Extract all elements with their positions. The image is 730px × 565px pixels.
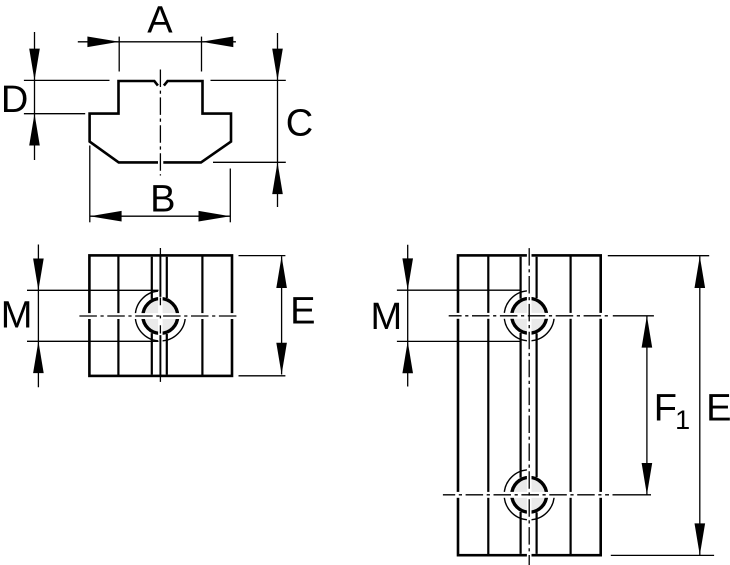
plan2 tapped hole bottom	[512, 477, 547, 512]
plan2 slot line left	[519, 257, 521, 554]
plan1 slot line right	[166, 257, 168, 375]
dim E2 ext bottom	[611, 554, 714, 556]
plan1 line A-left	[117, 255, 119, 376]
svg-text:C: C	[286, 103, 313, 145]
centerline profile vertical	[159, 70, 161, 176]
plan1 outline rect	[89, 255, 232, 376]
dim M2 ext bottom	[397, 340, 521, 342]
plan1 halo horizontal	[85, 313, 237, 319]
dim M2 ext top	[397, 289, 521, 291]
dim M1 line	[37, 245, 39, 388]
plan2 outline rect	[458, 255, 601, 555]
dim A ext right	[201, 37, 203, 72]
plan1 thread outer arc	[135, 291, 185, 341]
profile outline left half	[90, 81, 158, 162]
profile outline right half	[163, 81, 231, 162]
plan1 centerline vertical through hole	[159, 298, 161, 334]
dim M1 ext top	[27, 289, 159, 291]
plan1 centerline vertical stub above	[159, 248, 161, 255]
svg-text:F: F	[654, 388, 677, 430]
dim F1 arrow bottom	[642, 463, 653, 495]
plan2 centerline horizontal top	[449, 315, 609, 317]
svg-text:E: E	[290, 291, 315, 333]
plan2 line A-left	[487, 255, 489, 555]
svg-text:M: M	[370, 296, 402, 338]
dim E2 ext top	[608, 255, 709, 257]
dimension E (right view)	[608, 256, 714, 556]
svg-text:B: B	[150, 179, 175, 221]
dim C line	[277, 33, 279, 207]
dim D ext top	[24, 79, 110, 81]
plan2 centerline vertical	[528, 246, 530, 565]
dim D arrow top	[29, 49, 40, 81]
dim C arrow bottom	[272, 162, 283, 194]
plan1 line A-right	[201, 255, 203, 376]
plan2 tapped hole top	[512, 298, 547, 333]
plan1 centerline horizontal	[79, 315, 239, 317]
dim D arrow bottom	[29, 114, 40, 146]
plan1 slot line left	[151, 257, 153, 375]
dim F1 ext top (centerline extension)	[613, 315, 654, 317]
svg-text:D: D	[1, 79, 28, 121]
dim M1 ext bottom	[27, 340, 159, 342]
plan2 thread outer arc top	[504, 291, 554, 341]
dim E1 arrow top	[276, 256, 287, 288]
svg-text:1: 1	[675, 405, 690, 435]
dimension E (left view)	[239, 256, 286, 376]
plan2 line A-right	[569, 255, 571, 555]
svg-text:A: A	[147, 0, 173, 41]
dim M1 arrow top	[33, 259, 44, 291]
plan2 halo horizontal top	[452, 313, 607, 319]
plan2 centerline horizontal bottom	[443, 494, 609, 496]
dim A ext left	[118, 37, 120, 72]
plan2 halo horizontal bottom	[452, 492, 607, 498]
dim M1 arrow bottom	[33, 341, 44, 373]
dim M2 line	[407, 245, 409, 387]
dim D ext bottom	[24, 113, 85, 115]
plan2 halo vertical	[527, 253, 532, 559]
plan2 slot line right	[535, 257, 537, 554]
dim M2 arrow top	[402, 258, 413, 290]
dimension M (left view)	[27, 245, 159, 388]
dim C ext bottom	[213, 161, 286, 163]
dim E1 ext top	[239, 255, 286, 257]
dimension D	[24, 32, 110, 160]
dimension F1	[646, 316, 648, 495]
dim F1 arrow top	[642, 316, 653, 348]
dimension B	[90, 146, 231, 223]
dim B arrow right	[199, 211, 231, 222]
dim A line	[78, 41, 236, 43]
plan1 halo vertical	[158, 289, 163, 343]
plan1 centerline vertical stub below	[159, 376, 161, 382]
dim E1 line	[281, 256, 283, 374]
dim E1 ext bottom	[239, 375, 286, 377]
dim B ext right	[229, 169, 231, 223]
dim A arrow left	[87, 37, 119, 48]
dim A arrow right	[202, 37, 234, 48]
plan1 tapped hole	[143, 299, 178, 334]
dim E2 arrow top	[695, 256, 706, 288]
dim E2 arrow bottom	[695, 523, 706, 555]
dimension C	[211, 33, 286, 207]
dimension A	[78, 37, 236, 72]
dim E2 line	[699, 256, 701, 555]
dim F1 ext bottom (centerline extension)	[613, 494, 652, 496]
dim E1 arrow bottom	[276, 343, 287, 375]
svg-text:M: M	[1, 295, 33, 337]
dim C ext top	[211, 79, 286, 81]
svg-text:E: E	[706, 387, 730, 429]
plan1 middle solid line	[159, 255, 161, 376]
dim B arrow left	[90, 211, 122, 222]
dim B line	[90, 215, 231, 217]
dim C arrow top	[272, 49, 283, 81]
dim M2 arrow bottom	[402, 341, 413, 373]
plan2 thread outer arc bottom	[504, 470, 554, 520]
dim F1 line	[646, 316, 648, 495]
dim B ext left	[89, 146, 91, 223]
dimension M (right view)	[397, 245, 521, 387]
dim D line	[34, 32, 36, 160]
